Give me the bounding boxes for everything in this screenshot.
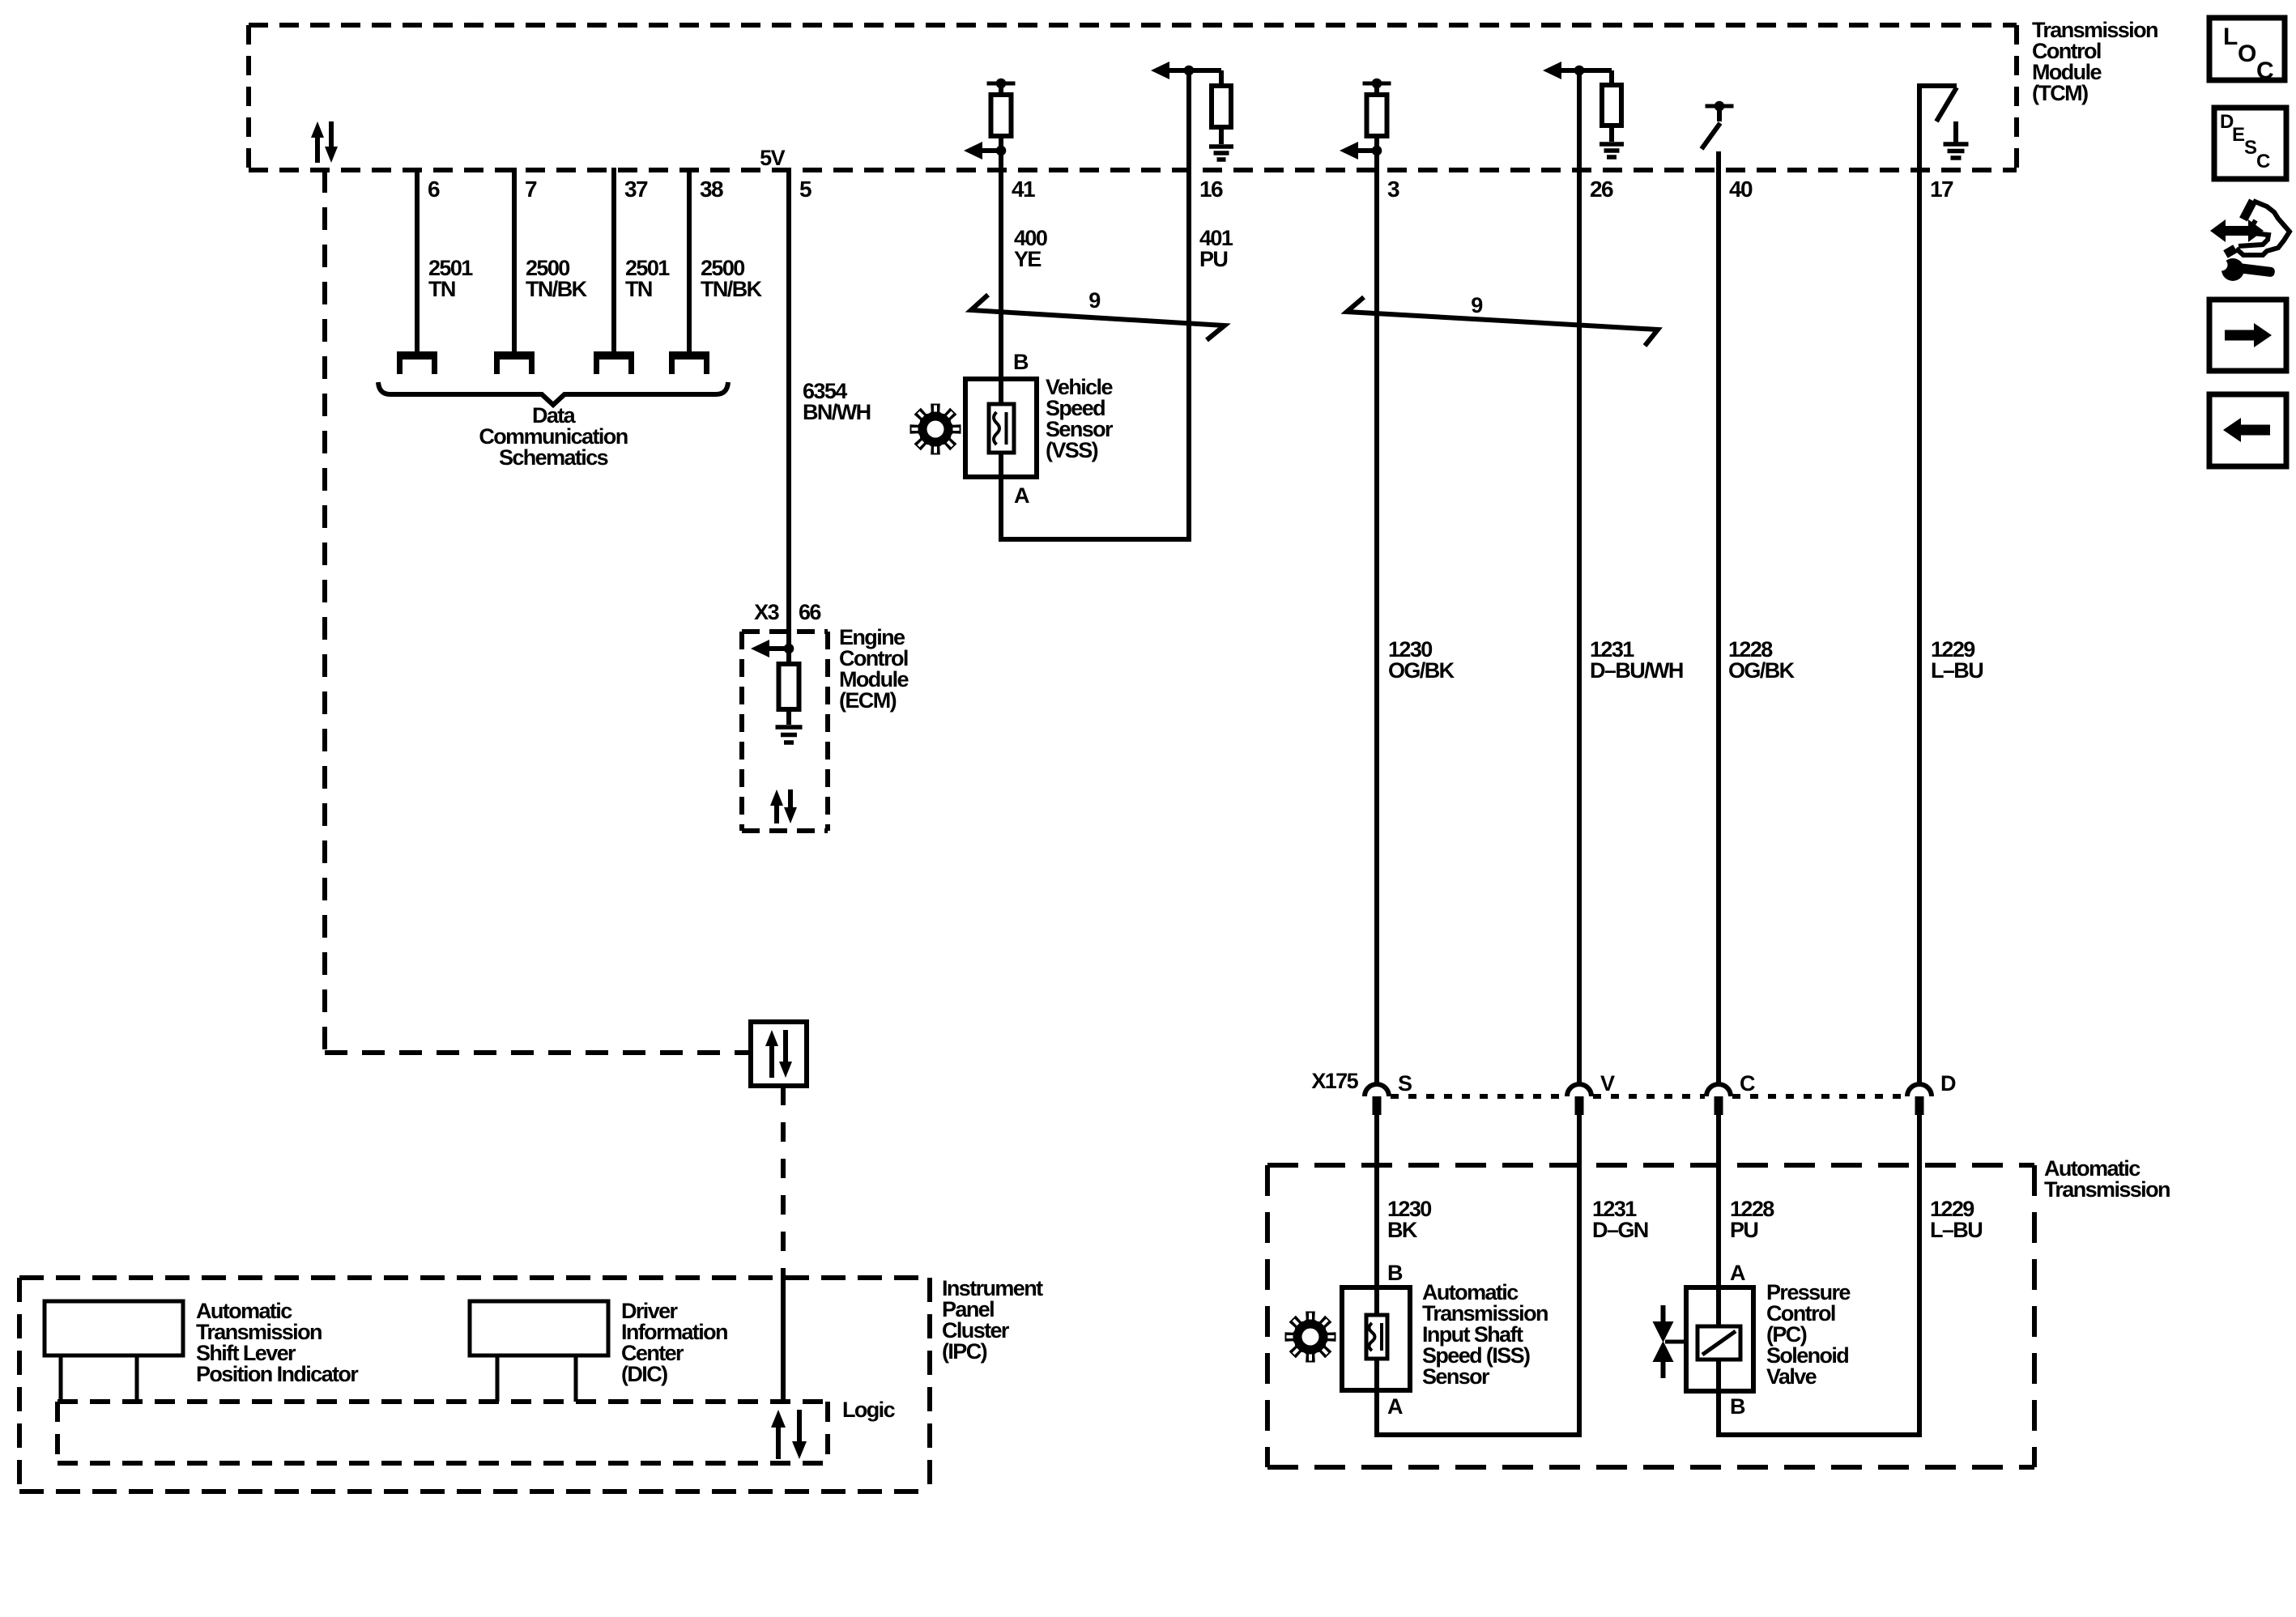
serial data arrows inside Logic box [776, 1426, 781, 1459]
resistor inside ECM [786, 649, 791, 725]
svg-text:16: 16 [1199, 177, 1223, 202]
svg-text:B: B [1387, 1261, 1403, 1285]
svg-text:YE: YE [1014, 247, 1041, 271]
svg-text:6: 6 [428, 177, 440, 202]
svg-text:A: A [1014, 483, 1029, 508]
wire ISS A to 1231 return bottom run [1374, 1432, 1582, 1437]
wire dashed gateway to IPC [781, 1086, 786, 1278]
harness crossing symbol 9 wires (left) [971, 295, 1225, 340]
wire solid serial data inside IPC [781, 1278, 786, 1402]
indicator box Automatic Transmission Shift Lever Position Indicator [45, 1301, 183, 1355]
svg-text:66: 66 [799, 600, 821, 624]
ground inside ECM [776, 725, 803, 730]
svg-text:Transmission: Transmission [2044, 1177, 2170, 1202]
sensor element inside VSS [989, 404, 1014, 453]
svg-text:C: C [2256, 57, 2273, 84]
svg-text:(DIC): (DIC) [621, 1362, 667, 1386]
svg-text:7: 7 [525, 177, 537, 202]
svg-text:L–BU: L–BU [1931, 658, 1983, 683]
wire TCM pin 5 circuit 6354 BN/WH to ECM [786, 168, 791, 649]
svg-text:L–BU: L–BU [1930, 1218, 1982, 1242]
svg-text:A: A [1387, 1394, 1403, 1419]
svg-text:V: V [1600, 1071, 1615, 1096]
gateway box with up/down arrows (serial data) [751, 1022, 807, 1086]
wire circuit 401 PU from VSS to TCM pin 16 [1186, 70, 1191, 542]
wire circuit 1229 L-BU up to X175-D [1917, 1115, 1922, 1437]
svg-text:41: 41 [1012, 177, 1035, 202]
wire circuit 1231 D-GN up to X175-V [1577, 1115, 1582, 1437]
svg-text:TN: TN [428, 277, 455, 301]
gear icon at VSS [910, 404, 961, 455]
harness crossing symbol 9 wires (right) [1347, 297, 1658, 346]
svg-text:40: 40 [1729, 177, 1753, 202]
gear icon at ISS [1285, 1312, 1336, 1363]
svg-text:TN/BK: TN/BK [526, 277, 588, 301]
switch contact at pin 40 inside TCM [1706, 104, 1734, 109]
connector pin stub V [1575, 1096, 1584, 1115]
svg-text:Schematics: Schematics [499, 445, 608, 470]
wire PC solenoid B to 1229 return bottom run [1716, 1432, 1922, 1437]
svg-text:17: 17 [1930, 177, 1953, 202]
connector pin stub C [1715, 1096, 1723, 1115]
svg-text:TN/BK: TN/BK [701, 277, 763, 301]
sensor element inside ISS [1366, 1315, 1387, 1359]
svg-text:X175: X175 [1311, 1069, 1358, 1093]
valve symbol at PC solenoid [1661, 1305, 1666, 1323]
svg-text:C: C [1740, 1071, 1755, 1096]
wire TCM pin 38 circuit 2500 TN/BK [687, 168, 692, 351]
wire TCM pin 37 circuit 2501 TN [611, 168, 616, 351]
wire serial data dashed from TCM left to IPC gateway [322, 170, 327, 1053]
svg-text:S: S [1398, 1071, 1412, 1096]
junction node at ECM pin 66 [784, 644, 794, 654]
wire circuit 1228 PU from X175-C to PC solenoid A [1716, 1115, 1721, 1435]
svg-text:(ECM): (ECM) [839, 688, 897, 713]
off-page splice symbol for pin 37 [594, 351, 634, 360]
svg-text:Valve: Valve [1766, 1364, 1817, 1389]
serial data arrows inside ECM [774, 804, 779, 823]
connector X175 cavity S arc [1365, 1084, 1389, 1096]
off-page splice symbol for pin 7 [494, 351, 535, 360]
svg-text:PU: PU [1730, 1218, 1757, 1242]
svg-text:OG/BK: OG/BK [1728, 658, 1795, 683]
display box DIC (Driver Information Center) [470, 1301, 608, 1355]
svg-text:(VSS): (VSS) [1046, 438, 1098, 462]
solenoid box PC [1686, 1287, 1753, 1391]
svg-text:A: A [1730, 1261, 1745, 1285]
wire TCM pin 3 circuit 1230 OG/BK [1374, 83, 1379, 1083]
svg-text:S: S [2244, 137, 2257, 159]
wire VSS terminal A bottom run [999, 537, 1191, 542]
svg-text:37: 37 [624, 177, 648, 202]
svg-text:(TCM): (TCM) [2032, 81, 2088, 105]
wire circuit 1230 BK from X175-S to ISS sensor B [1374, 1115, 1379, 1435]
svg-text:L: L [2223, 23, 2238, 50]
wire TCM pin 17 circuit 1229 L-BU [1917, 170, 1922, 1083]
module box ECM (Engine Control Module) dashed outline [742, 629, 828, 634]
svg-text:O: O [2238, 40, 2256, 67]
svg-text:(IPC): (IPC) [942, 1339, 987, 1364]
off-page splice symbol for pin 6 [397, 351, 437, 360]
svg-text:D–GN: D–GN [1592, 1218, 1648, 1242]
svg-text:BK: BK [1387, 1218, 1418, 1242]
legend icon connector-service (arrow + wrench) [2224, 226, 2250, 236]
svg-text:26: 26 [1590, 177, 1613, 202]
connector X175 cavity C arc [1706, 1084, 1731, 1096]
svg-text:D–BU/WH: D–BU/WH [1590, 658, 1683, 683]
legend box LOC [2209, 18, 2285, 80]
pullup resistor to ground at pin 16 inside TCM [1151, 62, 1169, 79]
svg-text:9: 9 [1088, 288, 1101, 313]
svg-text:5: 5 [799, 177, 811, 202]
svg-text:TN: TN [625, 277, 652, 301]
off-page splice symbol for pin 38 [669, 351, 709, 360]
svg-text:Sensor: Sensor [1422, 1364, 1490, 1389]
wire TCM pin 41 circuit 400 YE to VSS terminal B [999, 83, 1003, 539]
legs of DIC [496, 1355, 500, 1402]
legend box prev-page (left arrow) [2209, 394, 2286, 466]
sensor box ISS [1342, 1287, 1410, 1390]
svg-text:D: D [1940, 1071, 1956, 1096]
brace grouping data communication wires [378, 382, 728, 405]
connector pin stub S [1373, 1096, 1382, 1115]
svg-text:PU: PU [1199, 247, 1227, 271]
pullup resistor to ground at pin 26 inside TCM [1543, 62, 1561, 79]
svg-text:BN/WH: BN/WH [803, 400, 871, 424]
sensor box VSS [965, 379, 1037, 477]
wire TCM pin 7 circuit 2500 TN/BK [512, 168, 517, 351]
wire TCM pin 6 circuit 2501 TN [415, 168, 420, 351]
legend box DESC [2214, 108, 2286, 179]
module box Automatic Transmission dashed outline [1267, 1163, 2034, 1168]
connector X175 dotted line [1391, 1094, 1565, 1099]
svg-text:C: C [2256, 151, 2270, 172]
svg-text:B: B [1730, 1394, 1745, 1419]
legend box next-page (right arrow) [2209, 300, 2286, 371]
connector X175 cavity V arc [1567, 1084, 1591, 1096]
termination resistor and test point at pin 41 inside TCM [987, 82, 1016, 86]
wire TCM pin 40 circuit 1228 OG/BK [1716, 151, 1721, 1083]
svg-text:B: B [1013, 350, 1029, 374]
legs of shift lever indicator [59, 1355, 63, 1402]
svg-text:9: 9 [1471, 293, 1483, 317]
wire TCM pin 26 circuit 1231 D-BU/WH [1577, 70, 1582, 1083]
logic box dashed outline inside IPC [58, 1399, 828, 1404]
svg-text:Logic: Logic [842, 1398, 896, 1422]
svg-text:Position Indicator: Position Indicator [196, 1362, 359, 1386]
svg-text:X3: X3 [754, 600, 779, 624]
module box TCM (Transmission Control Module) dashed outline [249, 23, 2017, 28]
svg-text:38: 38 [700, 177, 723, 202]
connector X175 cavity D arc [1907, 1084, 1932, 1096]
connector pin stub D [1915, 1096, 1924, 1115]
termination resistor and test point at pin 3 inside TCM [1363, 82, 1391, 86]
signal arrow into ECM [767, 646, 789, 651]
switch to ground at pin 17 inside TCM [1917, 84, 1922, 170]
svg-text:OG/BK: OG/BK [1388, 658, 1455, 683]
svg-text:5V: 5V [760, 146, 785, 170]
module box IPC (Instrument Panel Cluster) dashed outline [19, 1275, 930, 1280]
svg-text:E: E [2232, 124, 2245, 146]
serial data arrows inside TCM [315, 136, 320, 163]
svg-text:3: 3 [1387, 177, 1399, 202]
solenoid element inside PC [1698, 1326, 1740, 1360]
